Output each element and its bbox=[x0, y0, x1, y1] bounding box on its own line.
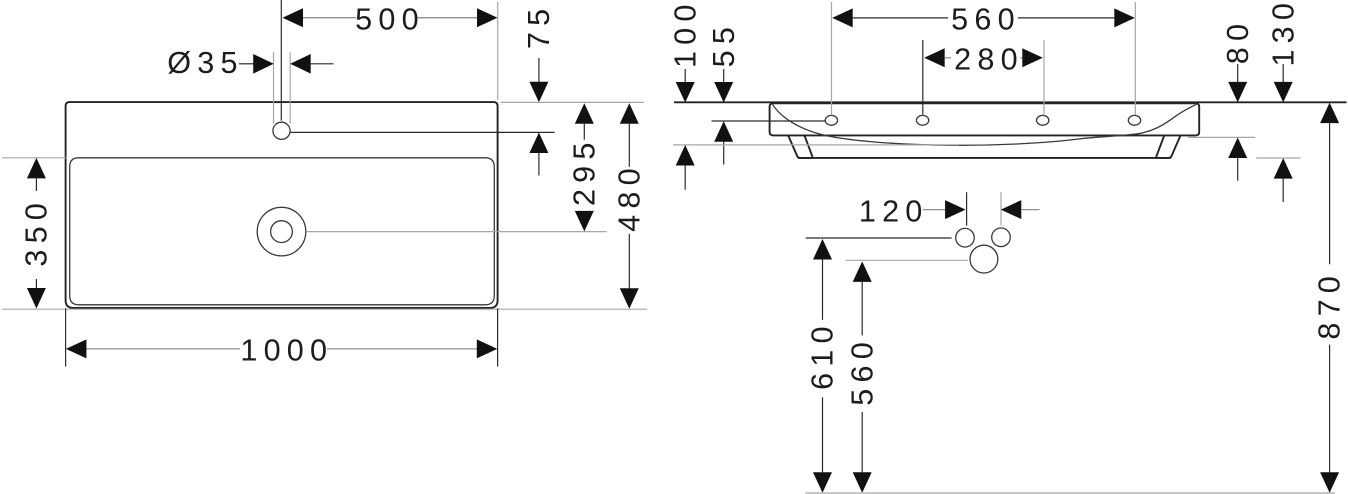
dimension 75 bbox=[522, 3, 556, 176]
svg-text:Ø35: Ø35 bbox=[167, 46, 243, 80]
svg-text:130: 130 bbox=[1266, 0, 1300, 67]
dimension 560 (top) bbox=[832, 2, 1136, 115]
dimension 560 (bottom) bbox=[845, 260, 968, 493]
fixing hole 3 bbox=[1037, 115, 1049, 125]
dimension 130 bbox=[1256, 0, 1301, 202]
left leg bbox=[788, 136, 812, 158]
drain outer circle bbox=[257, 207, 306, 256]
extension line top edge right bbox=[501, 101, 645, 103]
bottom edge line bbox=[798, 157, 1171, 159]
drain fitting hole big bbox=[970, 245, 998, 273]
dimension 1000 bbox=[66, 308, 498, 367]
svg-text:280: 280 bbox=[954, 43, 1024, 77]
svg-text:870: 870 bbox=[1313, 270, 1347, 340]
top reference line bbox=[674, 101, 1347, 103]
svg-text:560: 560 bbox=[845, 336, 879, 406]
svg-text:500: 500 bbox=[355, 3, 425, 37]
dimension 295 bbox=[568, 103, 602, 231]
svg-text:560: 560 bbox=[951, 3, 1021, 37]
svg-text:75: 75 bbox=[522, 3, 556, 49]
fixing hole 2 bbox=[916, 115, 928, 125]
svg-text:100: 100 bbox=[668, 0, 702, 68]
dimension 870 bbox=[1313, 103, 1347, 493]
svg-text:55: 55 bbox=[707, 21, 741, 67]
drain pointer line bbox=[306, 231, 607, 233]
basin outer outline (top view) bbox=[66, 102, 498, 308]
floor line bbox=[805, 492, 1335, 494]
svg-text:610: 610 bbox=[806, 320, 840, 390]
faucet hole tangent extension lines (Ø35) bbox=[274, 52, 291, 124]
dimension 55 bbox=[707, 21, 825, 165]
drain inner circle bbox=[271, 221, 293, 243]
inner bowl silhouette curve bbox=[773, 104, 1197, 145]
svg-text:480: 480 bbox=[613, 162, 647, 232]
dimension 610 bbox=[806, 238, 952, 493]
dimension 350 bbox=[20, 158, 54, 309]
faucet hole centerline bbox=[280, 0, 282, 121]
right leg bbox=[1156, 136, 1180, 158]
dimension 120 bbox=[859, 192, 1040, 228]
extension line 350 top bbox=[2, 157, 66, 159]
svg-text:350: 350 bbox=[20, 197, 54, 267]
svg-text:120: 120 bbox=[859, 194, 929, 228]
dimension 280 bbox=[923, 40, 1044, 115]
dimension 500 bbox=[283, 3, 498, 37]
dimension 480 bbox=[613, 103, 647, 308]
svg-text:295: 295 bbox=[568, 136, 602, 206]
drain fitting hole right bbox=[992, 228, 1011, 247]
label Ø35 bbox=[167, 46, 333, 80]
dimension 80 bbox=[1188, 18, 1255, 181]
fixing hole 1 bbox=[825, 115, 837, 125]
basin rim band outline (front view) bbox=[770, 103, 1200, 135]
drain fitting hole left bbox=[956, 228, 975, 247]
basin inner bowl outline (top view) bbox=[70, 158, 495, 305]
extension line bottom (long) bbox=[2, 308, 647, 310]
faucet hole circle bbox=[273, 122, 290, 139]
extension line right edge (above) bbox=[497, 2, 499, 100]
svg-text:1000: 1000 bbox=[240, 334, 333, 368]
dimension 100 bbox=[668, 0, 959, 190]
fixing hole 4 bbox=[1128, 115, 1140, 125]
svg-text:80: 80 bbox=[1221, 18, 1255, 64]
faucet hole pointer line bbox=[290, 131, 554, 133]
